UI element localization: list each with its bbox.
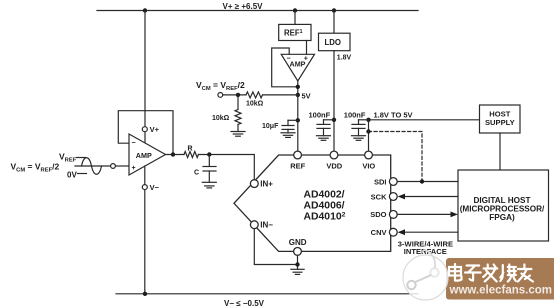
power HOST SUPPLY box [480, 105, 521, 133]
wire amp feedback loop [118, 111, 173, 155]
svg-text:CNV: CNV [371, 228, 387, 237]
capacitor 100nF on VDD [317, 118, 336, 136]
svg-text:100nF: 100nF [309, 110, 331, 119]
node junction dot on rail at LDO line [332, 8, 336, 12]
pin label SCK [371, 192, 387, 201]
resistor 10k horizontal [246, 92, 263, 98]
pin label CNV [371, 228, 387, 237]
pin VIO [365, 151, 373, 159]
svg-text:−: − [132, 138, 136, 147]
tick VREF level [77, 157, 86, 159]
pin SDI [389, 178, 397, 186]
source sine wave line [75, 165, 111, 167]
svg-text:V− ≤ −0.5V: V− ≤ −0.5V [224, 299, 265, 308]
resistor R [184, 152, 198, 158]
capacitor C [203, 155, 216, 183]
svg-text:SCK: SCK [371, 192, 387, 201]
node junction dot SDI dashed [420, 179, 424, 183]
node junction dot VIO dashed tap [366, 129, 370, 133]
source sine wave symbol [82, 158, 102, 175]
value label 10k horizontal [246, 101, 264, 108]
wire VCM terminal to resistor [223, 94, 246, 96]
svg-text:SDI: SDI [374, 177, 387, 186]
ref label R [188, 146, 193, 153]
svg-text:VDD: VDD [326, 162, 342, 171]
pin label V+ [150, 125, 160, 134]
svg-text:www.elecfans.com: www.elecfans.com [449, 285, 552, 297]
pin label SDO [370, 210, 386, 219]
node junction dot on rail at REF line [293, 8, 297, 12]
node junction dot RC [207, 152, 211, 156]
svg-text:GND: GND [289, 238, 307, 247]
ground below 100nF VIO [352, 136, 366, 141]
node source open terminal [111, 164, 116, 169]
svg-text:R: R [188, 146, 193, 153]
watermark CJK text dian zi fa shao you [449, 264, 533, 282]
pin GND [294, 248, 302, 256]
pin label VIO [362, 162, 375, 171]
node junction dot bottom rail [143, 292, 147, 296]
wire LDO output 1.8V down to VDD [333, 51, 335, 155]
tick 0V level [78, 173, 87, 175]
svg-text:V+ ≥ +6.5V: V+ ≥ +6.5V [223, 2, 264, 11]
value label 100nF (VIO) [344, 110, 366, 119]
svg-text:VIO: VIO [362, 162, 375, 171]
part label AD4002/AD4006/AD4010 [304, 190, 346, 223]
net label 5V [302, 92, 311, 101]
svg-text:0V: 0V [67, 170, 77, 179]
pin IN- [250, 221, 258, 229]
node VCM open terminal [218, 93, 223, 98]
pin label IN- [260, 221, 273, 230]
pin label IN+ [260, 180, 273, 189]
digital host box MICROPROCESSOR/FPGA [458, 170, 549, 241]
svg-text:5V: 5V [302, 92, 311, 101]
svg-text:+: + [132, 163, 136, 172]
node junction dot GND [295, 262, 299, 266]
ground below GND pin [291, 269, 304, 274]
svg-text:AD4002/: AD4002/ [304, 190, 345, 201]
wire CNV from digital host with arrow [398, 229, 458, 235]
watermark elecfans box [446, 258, 554, 300]
wire V+ supply line down to amp [144, 11, 146, 144]
wire host supply to digital host [499, 133, 501, 170]
wire GND pin down [297, 255, 299, 269]
ref label C [194, 170, 199, 177]
svg-text:LDO: LDO [325, 38, 341, 47]
net label V- <= -0.5V [224, 299, 265, 308]
watermark logo circle [403, 250, 448, 300]
net label V+ >= +6.5V [223, 2, 264, 11]
wire rail to REF box [294, 11, 296, 25]
svg-text:SUPPLY: SUPPLY [485, 118, 515, 127]
svg-text:IN+: IN+ [260, 180, 273, 189]
pin CNV [389, 228, 397, 236]
net label 1.8V TO 5V [374, 110, 413, 119]
svg-text:10kΩ: 10kΩ [246, 101, 264, 108]
wire rail to LDO box [333, 11, 335, 34]
svg-text:AMP: AMP [290, 60, 306, 69]
svg-text:AD40102: AD40102 [304, 212, 346, 223]
svg-text:IN−: IN− [260, 221, 273, 230]
voltage reference REF1 box [279, 24, 311, 40]
wire amp output [166, 154, 185, 156]
value label 1.8V [337, 55, 352, 62]
pin VDD [330, 151, 338, 159]
svg-text:10μF: 10μF [262, 123, 279, 130]
svg-text:FPGA): FPGA) [489, 213, 515, 222]
svg-text:V+: V+ [150, 125, 160, 134]
source VCM = VREF/2 label [11, 162, 60, 174]
net label VREF level [59, 151, 77, 163]
svg-text:100nF: 100nF [344, 110, 366, 119]
pin V+ open circle [142, 127, 147, 132]
svg-text:1.8V TO 5V: 1.8V TO 5V [374, 110, 413, 119]
node junction dot amp output [171, 152, 175, 156]
node junction dot divider [236, 93, 240, 97]
ground below 100nF VDD [317, 136, 331, 141]
pin label SDI [374, 177, 387, 186]
svg-text:REF: REF [290, 162, 305, 171]
pin REF [294, 151, 302, 159]
pin SDO [389, 211, 397, 219]
node junction dot feedback [296, 85, 300, 89]
ground below 10k vertical [231, 132, 245, 137]
resistor 10k vertical [235, 95, 241, 132]
value label 100nF (VDD) [309, 110, 331, 119]
wire buffer feedback loop [272, 48, 298, 87]
ground below 10uF [281, 133, 295, 138]
wire IN- to ground [254, 229, 297, 265]
capacitor 10uF on 5V [282, 118, 300, 133]
wire top V+ rail [97, 10, 418, 12]
wire dashed VIO to SDI [369, 132, 423, 182]
net label VCM = VREF/2 (divider) [196, 80, 245, 92]
wire VIO supply to host supply [369, 120, 480, 155]
svg-text:SDO: SDO [370, 210, 386, 219]
wire source to amp + input [115, 165, 129, 167]
svg-text:C: C [194, 170, 199, 177]
ground below C [202, 182, 216, 188]
node junction dot on rail at V+ line [143, 8, 147, 12]
svg-text:V−: V− [150, 183, 160, 192]
wire SDI to digital host [397, 181, 458, 183]
wire R to ADC IN+ [198, 155, 254, 180]
wire bottom V- rail [116, 293, 418, 295]
wire resistor to 5V node [263, 94, 298, 96]
watermark www.elecfans.com [449, 285, 552, 297]
pin label VDD [326, 162, 342, 171]
net label 3-WIRE/4-WIRE INTERFACE [398, 239, 453, 256]
capacitor 100nF on VIO [352, 118, 371, 136]
pin label V- [150, 183, 160, 192]
node junction dot 5V [296, 93, 300, 97]
value label 10uF [262, 123, 279, 130]
wire REF box to buffer + input [306, 41, 308, 55]
pin IN+ [250, 180, 258, 188]
wire SCK from digital host with arrow [398, 194, 458, 200]
pin SCK [389, 193, 397, 201]
wire SDO to digital host with arrow [397, 212, 458, 218]
op-amp U1 AMP driver [129, 134, 166, 175]
value label 10k vertical [212, 115, 230, 122]
svg-text:AMP: AMP [136, 151, 152, 160]
regulator LDO box [319, 33, 351, 51]
wire buffer output 5V down to ADC REF pin [297, 81, 299, 155]
op-amp U2 reference buffer AMP [281, 54, 314, 82]
pin label REF [290, 162, 305, 171]
svg-text:10kΩ: 10kΩ [212, 115, 230, 122]
pin label GND [289, 238, 307, 247]
svg-text:AD4006/: AD4006/ [304, 201, 345, 212]
ADC AD4002 body outline [234, 155, 391, 251]
svg-text:1.8V: 1.8V [337, 55, 352, 62]
net label 0V level [67, 170, 77, 179]
pin V- open circle [142, 166, 147, 294]
